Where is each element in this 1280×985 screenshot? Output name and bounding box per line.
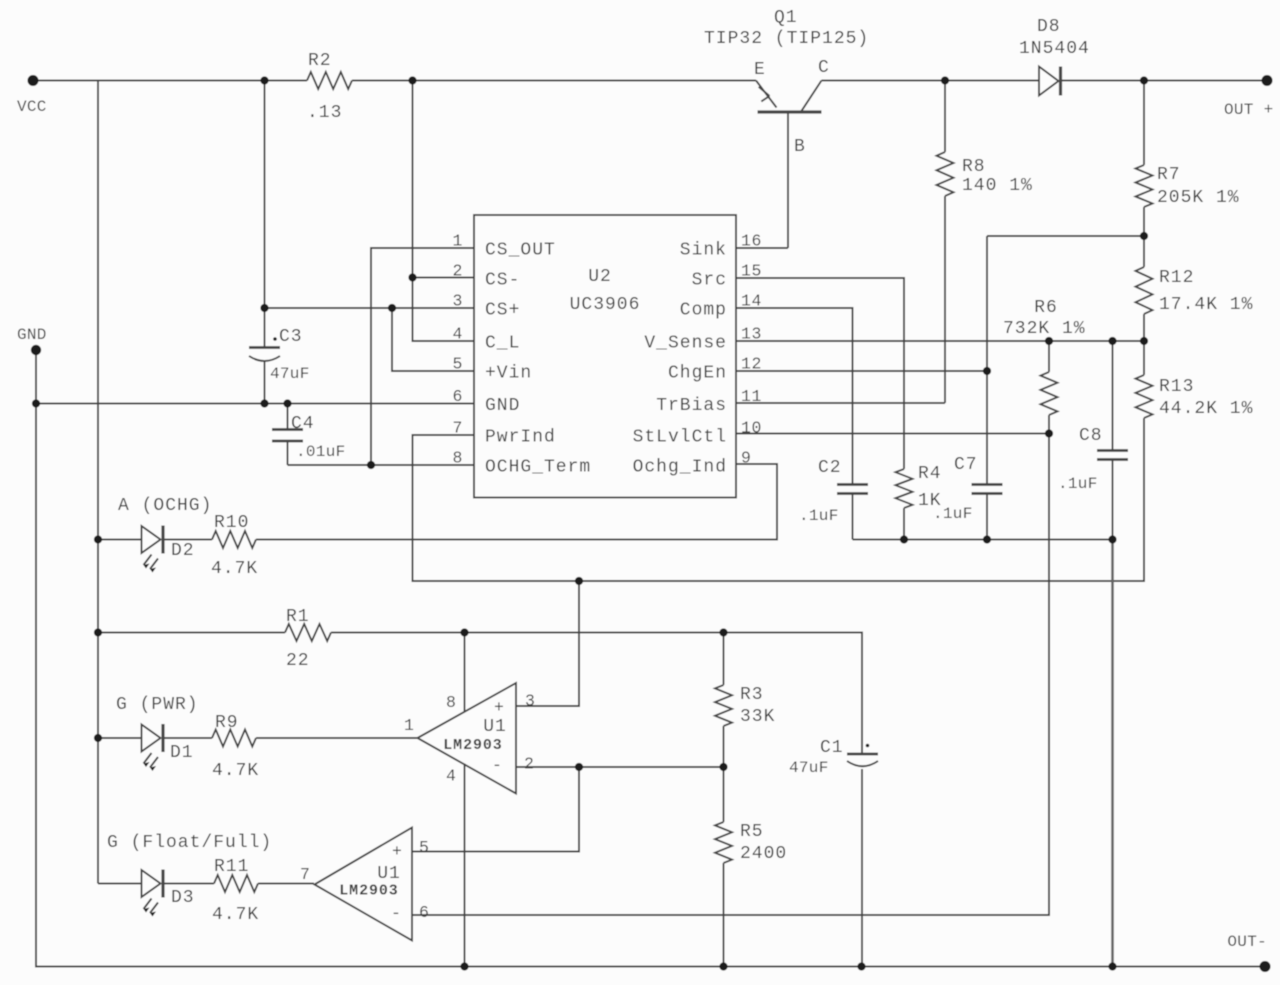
svg-text:Ochg_Ind: Ochg_Ind	[633, 458, 727, 478]
svg-text:15: 15	[741, 262, 762, 281]
svg-text:6: 6	[452, 387, 463, 406]
svg-text:TrBias: TrBias	[656, 396, 727, 416]
svg-text:2: 2	[524, 755, 535, 774]
svg-text:6: 6	[419, 903, 430, 922]
svg-text:C2: C2	[818, 458, 842, 478]
svg-text:C4: C4	[291, 414, 315, 434]
svg-text:22: 22	[286, 651, 310, 671]
svg-text:C8: C8	[1079, 426, 1103, 446]
svg-text:1: 1	[452, 232, 463, 251]
svg-text:3: 3	[525, 692, 536, 711]
svg-text:CS_OUT: CS_OUT	[485, 241, 556, 261]
svg-text:LM2903: LM2903	[443, 737, 502, 754]
svg-text:4.7K: 4.7K	[212, 761, 259, 781]
svg-text:C7: C7	[954, 455, 978, 475]
svg-text:4: 4	[452, 325, 463, 344]
svg-text:U1: U1	[483, 717, 507, 737]
svg-text:7: 7	[300, 865, 311, 884]
svg-text:UC3906: UC3906	[570, 295, 641, 315]
svg-text:.1uF: .1uF	[933, 505, 973, 523]
svg-text:R8: R8	[962, 157, 986, 177]
svg-text:R10: R10	[214, 513, 249, 533]
svg-text:R3: R3	[740, 685, 764, 705]
svg-text:13: 13	[741, 325, 762, 344]
svg-text:G (Float/Full): G (Float/Full)	[107, 833, 272, 853]
svg-text:3: 3	[452, 292, 463, 311]
svg-text:R9: R9	[215, 713, 239, 733]
svg-text:16: 16	[741, 232, 762, 251]
svg-text:R12: R12	[1159, 268, 1194, 288]
svg-text:7: 7	[452, 419, 463, 438]
svg-text:.1uF: .1uF	[799, 507, 839, 525]
svg-text:G (PWR): G (PWR)	[116, 695, 199, 715]
svg-text:732K 1%: 732K 1%	[1003, 319, 1086, 339]
svg-text:D3: D3	[171, 888, 195, 908]
svg-text:R7: R7	[1157, 165, 1181, 185]
svg-text:D8: D8	[1037, 17, 1061, 37]
svg-text:140 1%: 140 1%	[962, 176, 1033, 196]
svg-text:GND: GND	[17, 326, 47, 344]
svg-text:.1uF: .1uF	[1058, 475, 1098, 493]
svg-text:GND: GND	[485, 396, 520, 416]
svg-text:VCC: VCC	[17, 98, 47, 116]
svg-text:5: 5	[452, 355, 463, 374]
svg-text:47uF: 47uF	[270, 365, 310, 383]
svg-text:+: +	[494, 698, 505, 717]
svg-text:D2: D2	[171, 541, 195, 561]
svg-text:TIP32 (TIP125): TIP32 (TIP125)	[704, 29, 869, 49]
svg-text:9: 9	[741, 449, 752, 468]
svg-text:Src: Src	[692, 271, 727, 291]
svg-text:2: 2	[452, 262, 463, 281]
svg-text:.01uF: .01uF	[296, 443, 346, 461]
svg-text:Sink: Sink	[680, 241, 727, 261]
svg-text:E: E	[754, 60, 766, 80]
svg-text:205K 1%: 205K 1%	[1157, 188, 1240, 208]
svg-text:R13: R13	[1159, 377, 1194, 397]
svg-text:8: 8	[446, 693, 457, 712]
svg-text:C1: C1	[820, 738, 844, 758]
svg-text:Comp: Comp	[680, 301, 727, 321]
svg-text:+: +	[392, 842, 403, 861]
svg-text:OUT +: OUT +	[1224, 101, 1274, 119]
svg-text:-: -	[492, 756, 503, 775]
svg-text:4.7K: 4.7K	[211, 559, 258, 579]
svg-text:R1: R1	[286, 607, 310, 627]
svg-text:8: 8	[452, 449, 463, 468]
svg-text:10: 10	[741, 419, 762, 438]
svg-text:11: 11	[741, 387, 762, 406]
svg-text:14: 14	[741, 292, 762, 311]
svg-text:CS+: CS+	[485, 301, 520, 321]
svg-text:StLvlCtl: StLvlCtl	[633, 428, 727, 448]
svg-text:U1: U1	[377, 864, 401, 884]
svg-text:R11: R11	[214, 857, 249, 877]
svg-text:A (OCHG): A (OCHG)	[118, 496, 212, 516]
svg-text:PwrInd: PwrInd	[485, 428, 556, 448]
svg-text:4.7K: 4.7K	[212, 905, 259, 925]
svg-text:17.4K 1%: 17.4K 1%	[1159, 295, 1253, 315]
svg-text:1N5404: 1N5404	[1019, 39, 1090, 59]
svg-text:LM2903: LM2903	[339, 883, 398, 900]
svg-text:12: 12	[741, 355, 762, 374]
svg-text:44.2K 1%: 44.2K 1%	[1159, 399, 1253, 419]
svg-text:47uF: 47uF	[789, 759, 829, 777]
svg-text:U2: U2	[588, 267, 612, 287]
svg-text:B: B	[794, 137, 806, 157]
svg-text:D1: D1	[170, 743, 194, 763]
svg-text:.13: .13	[307, 103, 342, 123]
svg-text:2400: 2400	[740, 844, 787, 864]
svg-text:-: -	[391, 904, 402, 923]
svg-text:5: 5	[419, 838, 430, 857]
svg-text:C_L: C_L	[485, 334, 520, 354]
svg-text:4: 4	[446, 767, 457, 786]
svg-text:V_Sense: V_Sense	[644, 334, 727, 354]
svg-text:R5: R5	[740, 822, 764, 842]
svg-text:R4: R4	[918, 464, 942, 484]
svg-text:OCHG_Term: OCHG_Term	[485, 458, 591, 478]
svg-text:1: 1	[404, 716, 415, 735]
svg-text:R2: R2	[308, 51, 332, 71]
svg-text:C: C	[818, 58, 830, 78]
svg-text:CS-: CS-	[485, 271, 520, 291]
svg-text:33K: 33K	[740, 707, 775, 727]
svg-text:R6: R6	[1034, 298, 1058, 318]
svg-text:Q1: Q1	[774, 8, 798, 28]
svg-text:+Vin: +Vin	[485, 364, 532, 384]
svg-text:OUT-: OUT-	[1227, 933, 1267, 951]
svg-text:C3: C3	[279, 327, 303, 347]
svg-text:ChgEn: ChgEn	[668, 364, 727, 384]
